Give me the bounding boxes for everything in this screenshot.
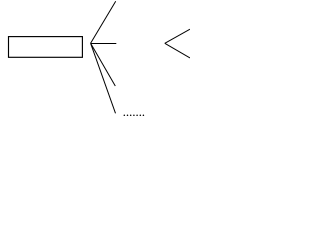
ellipsis dots bbox=[124, 114, 145, 116]
node box (rectangle) bbox=[9, 37, 83, 58]
fan-out apex node bbox=[91, 1, 117, 113]
wire: fan line up bbox=[91, 1, 116, 43]
wire: chevron upper arm bbox=[165, 29, 190, 43]
wire: fan line down-mid bbox=[91, 43, 116, 86]
wire: chevron lower arm bbox=[165, 43, 190, 58]
wire: fan line horizontal bbox=[91, 43, 117, 45]
wire: fan line down-long bbox=[91, 43, 116, 113]
fan-in apex (right chevron) bbox=[165, 29, 190, 58]
